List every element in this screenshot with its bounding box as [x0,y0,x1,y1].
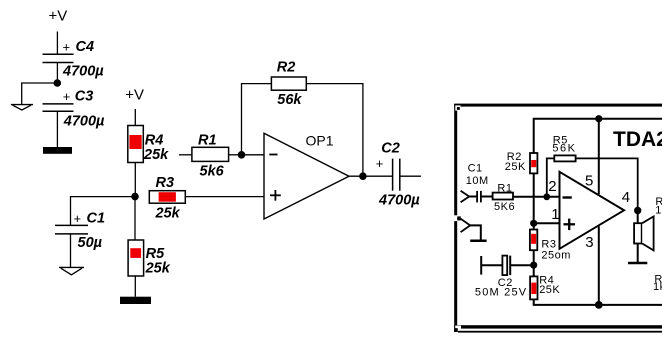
svg-text:4700µ: 4700µ [63,113,105,129]
wire node to C1 [71,197,136,226]
svg-text:4700µ: 4700µ [378,193,420,209]
wire sleeve to ground [470,225,481,239]
cropped resistor label R 1k (bottom right) [653,274,662,293]
pin 1 label [551,206,559,223]
image frame [454,104,662,333]
svg-text:4700µ: 4700µ [62,64,104,80]
wire +V to R4 [134,109,136,126]
wire C3 to ground bar [56,111,58,147]
svg-text:1k: 1k [655,205,662,217]
supply +V (for R4) [125,87,144,104]
wire C4 to node [56,63,58,84]
wire node to ground [22,83,58,104]
cropped resistor label R (top right) [655,196,662,217]
node junction (R1/R2/op-amp) [238,151,246,159]
svg-text:+: + [63,89,71,104]
resistor R1 [192,132,229,179]
junction node (R3/R4/C2) [530,262,537,269]
svg-text:3: 3 [585,234,593,251]
svg-text:+V: +V [49,8,68,25]
capacitor C1 [466,162,489,202]
svg-text:25om: 25om [541,250,571,262]
plus input symbol [270,190,281,201]
wire node 1 to pin 1 [534,222,560,224]
svg-text:+: + [74,211,82,226]
ground bar (input) [470,239,486,242]
resistor R5 (horizontal) [552,134,576,161]
svg-text:C1: C1 [87,211,106,227]
wire node to R5 [134,197,136,240]
wire R2 to R3 (through node 1) [533,173,535,229]
selection handle (top-left) [455,105,460,110]
wire node to op-amp - input [242,154,265,156]
resistor R4 (vertical) [530,275,560,300]
wire C1 to R1 [481,196,493,198]
wire R2 to output [306,84,363,177]
op-amp OP1 [264,133,349,219]
svg-text:+: + [376,156,384,171]
capacitor C2 (electrolytic) [475,256,534,299]
pin 4 label [622,189,630,206]
wire C1 to ground [70,234,72,267]
output junction dot (pin 4) [634,207,641,214]
capacitor C4 [43,39,105,80]
svg-text:+V: +V [125,87,144,104]
feedback wire R5 to output [576,158,638,207]
input stub wire [179,154,192,156]
svg-text:50µ: 50µ [78,235,103,251]
svg-text:R3: R3 [156,175,175,191]
wire R4 to node [134,163,136,197]
svg-text:TDA2003: TDA2003 [613,128,662,151]
capacitor C1 [55,211,105,251]
wire jack to C1 [469,196,477,198]
junction dot on bottom rail [595,301,603,309]
resistor R3 [149,175,185,221]
svg-text:1: 1 [551,206,559,223]
svg-text:56K: 56K [552,143,576,155]
feedback wire node 2 to R5 [547,158,555,196]
minus input symbol [269,154,277,156]
svg-text:1k: 1k [653,281,662,293]
pin 2 label [548,178,556,195]
V+ top rail wire [534,119,662,153]
junction dot on rail [595,115,602,122]
svg-text:R3: R3 [541,238,556,250]
capacitor C3 [43,88,106,129]
wire R1 to node [229,154,242,156]
input jack sleeve [461,219,471,232]
resistor R1 (horizontal) [493,182,515,213]
output node junction [359,172,367,180]
supply +V (top left) [49,8,68,25]
wire node up to R2 [242,84,272,155]
svg-text:+: + [63,40,71,55]
ground (chevron) [11,105,33,110]
ground (chevron) below C1 [59,267,84,274]
TDA2003 label (cropped) [613,128,662,151]
plus input symbol [564,219,576,231]
speaker [634,216,654,250]
ground bar (below R5) [120,297,151,304]
wire R3 to op-amp + input [185,196,264,198]
svg-text:C1: C1 [468,162,483,174]
svg-text:OP1: OP1 [306,133,334,149]
bottom rail wire [534,299,662,305]
svg-text:R1: R1 [198,132,217,148]
svg-text:56k: 56k [277,92,302,108]
op-amp TDA2003 triangle [560,172,625,249]
node junction (R4/R3/R5/C1) [131,193,139,201]
node 1 junction [530,220,537,227]
pin 3 wire [598,226,600,305]
resistor R3 (vertical) [530,230,571,262]
output wire [349,175,393,177]
pin 5 label [585,173,593,190]
svg-text:C4: C4 [76,39,95,55]
wire +V to C4 [56,32,58,55]
ground bar (speaker) [628,262,647,265]
pin 3 label [585,234,593,251]
capacitor C2 [376,141,420,209]
svg-text:4: 4 [622,189,630,206]
resistor R5 [128,240,171,276]
svg-text:C2: C2 [381,141,400,157]
wire R3 to R4 (through C2 node) [533,250,535,276]
svg-text:10M: 10M [466,175,489,187]
svg-text:5: 5 [585,173,593,190]
svg-text:C3: C3 [75,88,94,104]
svg-text:R1: R1 [497,182,512,194]
svg-text:25k: 25k [143,147,169,163]
node 2 junction [543,193,550,200]
resistor R2 (vertical) [505,151,538,173]
svg-text:25K: 25K [539,284,560,296]
svg-text:25K: 25K [505,161,526,173]
resistor R2 [271,60,306,109]
ground bar [43,147,72,154]
svg-text:50M 25V: 50M 25V [475,287,527,299]
wire output to speaker [637,211,639,224]
node junction (C3/C4) [54,79,62,87]
resistor R4 [128,126,169,164]
input jack tip [461,191,470,203]
svg-text:2: 2 [548,178,556,195]
svg-text:5K6: 5K6 [494,201,515,213]
svg-text:25k: 25k [145,260,171,276]
svg-text:25k: 25k [155,205,181,221]
minus input symbol [563,196,572,198]
wire R5 to ground bar [134,276,136,297]
pin 5 wire [598,119,600,195]
wire R1 to node 2 [513,196,560,198]
svg-text:5k6: 5k6 [200,163,225,179]
selection handle (bottom-left) [454,326,461,332]
svg-text:R2: R2 [277,60,296,76]
wire C2 out [400,175,421,177]
selection handle (mid-left) [453,215,461,221]
wire speaker to ground [637,244,639,263]
